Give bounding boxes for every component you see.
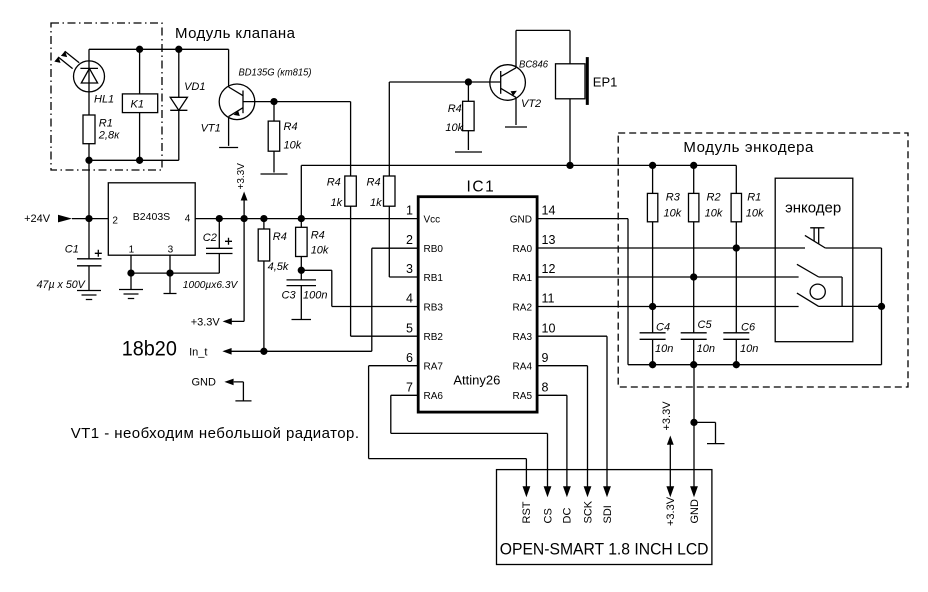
svg-text:R4: R4: [284, 121, 298, 133]
label B2403S: [112, 211, 190, 256]
svg-text:2: 2: [112, 216, 118, 227]
capacitor C5: [681, 277, 707, 365]
svg-text:In_t: In_t: [189, 346, 207, 358]
svg-text:Attiny26: Attiny26: [453, 373, 500, 388]
svg-text:IC1: IC1: [467, 179, 494, 196]
encoder module dashed box: [618, 133, 908, 387]
svg-text:R2: R2: [707, 192, 721, 204]
svg-text:RA3: RA3: [513, 332, 533, 343]
svg-text:10: 10: [542, 321, 556, 335]
relay K1: [122, 94, 157, 113]
resistor R3 10k: [652, 165, 654, 193]
svg-text:+24V: +24V: [24, 213, 51, 225]
wire pin14 GND to encoder: [537, 219, 628, 365]
svg-text:K1: K1: [131, 98, 144, 110]
svg-text:10k: 10k: [746, 208, 764, 220]
svg-text:12: 12: [542, 262, 556, 276]
svg-text:+3.3V: +3.3V: [236, 163, 247, 190]
svg-text:5: 5: [406, 321, 413, 335]
svg-text:1: 1: [406, 204, 413, 218]
svg-text:Модуль энкодера: Модуль энкодера: [683, 139, 814, 156]
svg-text:CS: CS: [542, 508, 554, 523]
wire GND LCD: [693, 365, 695, 487]
svg-text:1k: 1k: [370, 197, 382, 209]
svg-text:Vcc: Vcc: [424, 214, 441, 225]
flag GND: [234, 382, 252, 401]
svg-text:R4: R4: [273, 231, 287, 243]
node rail R3: [650, 162, 656, 168]
svg-text:VT1: VT1: [201, 122, 221, 134]
switch A symbol: [797, 264, 842, 306]
text labels: [175, 25, 841, 217]
svg-text:SDI: SDI: [602, 505, 614, 523]
svg-text:BD135G (кт815): BD135G (кт815): [239, 67, 312, 79]
resistor R1: [83, 115, 95, 144]
svg-text:1: 1: [129, 245, 135, 256]
svg-text:RB0: RB0: [424, 244, 444, 255]
wire bottom valve rail: [89, 159, 179, 161]
transistor VT2: [490, 65, 526, 101]
svg-text:R4: R4: [448, 103, 462, 115]
svg-text:2,8к: 2,8к: [98, 129, 120, 141]
pin arrow +3.3V: [666, 486, 674, 497]
pin arrow SDI: [603, 486, 611, 497]
ground bar below pin3: [164, 273, 177, 293]
LCD connector box: [497, 470, 712, 565]
svg-text:13: 13: [542, 233, 556, 247]
svg-text:18b20: 18b20: [122, 337, 177, 361]
svg-text:11: 11: [542, 292, 555, 306]
ground below C1: [77, 291, 101, 300]
push button symbol: [810, 228, 824, 244]
wire B2403S pins 1,3: [131, 255, 219, 273]
svg-text:10n: 10n: [740, 343, 758, 355]
svg-text:энкодер: энкодер: [785, 200, 841, 217]
resistor R1 10k: [731, 193, 741, 221]
svg-text:VD1: VD1: [184, 81, 205, 93]
svg-text:RB3: RB3: [424, 302, 444, 313]
svg-text:1000µx6.3V: 1000µx6.3V: [183, 279, 238, 291]
svg-text:BC846: BC846: [519, 59, 548, 71]
svg-text:RA4: RA4: [513, 362, 533, 373]
svg-text:3: 3: [168, 245, 174, 256]
wire VT2 collector to EP1: [516, 30, 570, 63]
valve module dashed box: [51, 23, 162, 170]
svg-text:R4: R4: [327, 177, 341, 189]
wire +3.3V flag up: [243, 200, 245, 219]
svg-text:C1: C1: [65, 244, 79, 256]
svg-text:VT1 - необходим небольшой ради: VT1 - необходим небольшой радиатор.: [71, 425, 359, 442]
svg-text:RST: RST: [521, 501, 533, 523]
pin arrow SCK: [584, 486, 592, 497]
encoder shaft circle: [810, 284, 825, 299]
svg-text:EP1: EP1: [593, 75, 618, 90]
wire pin8 RA5 to DC: [537, 395, 567, 486]
svg-text:10k: 10k: [311, 244, 329, 256]
LED HL1: [74, 61, 105, 92]
capacitor C1: [77, 219, 102, 291]
svg-text:RA1: RA1: [513, 273, 533, 284]
svg-text:Модуль клапана: Модуль клапана: [175, 25, 296, 42]
svg-text:10n: 10n: [655, 343, 673, 355]
wire pin12 RA1: [537, 276, 799, 278]
svg-text:+3.3V: +3.3V: [191, 317, 221, 329]
svg-text:R1: R1: [747, 192, 761, 204]
wire +3.3V flag down-left: [232, 219, 245, 322]
node +3.3V branch: [241, 216, 247, 222]
svg-text:C3: C3: [282, 290, 297, 302]
svg-text:9: 9: [542, 351, 549, 365]
wire pin13 RA0: [537, 247, 805, 249]
svg-text:10n: 10n: [697, 343, 715, 355]
svg-text:C6: C6: [741, 322, 756, 334]
svg-text:RA6: RA6: [424, 391, 444, 402]
svg-text:100n: 100n: [303, 290, 327, 302]
wire pin7 RA6 to CS: [391, 395, 548, 486]
power module B2403S: [108, 183, 195, 255]
switch B symbol: [797, 293, 882, 306]
svg-text:RA2: RA2: [513, 302, 533, 313]
svg-text:+3.3V: +3.3V: [665, 496, 677, 526]
svg-text:DC: DC: [562, 508, 574, 524]
node switch common: [879, 303, 885, 309]
ground below pin1: [119, 273, 143, 298]
node junctions valve: [137, 46, 143, 52]
svg-text:4: 4: [406, 292, 413, 306]
svg-text:R1: R1: [99, 118, 113, 130]
wire top valve rail: [89, 48, 229, 50]
IC U1 Attiny26 box: [418, 197, 537, 412]
svg-text:2: 2: [406, 233, 413, 247]
pin arrow DC: [563, 486, 571, 497]
svg-text:GND: GND: [689, 499, 701, 524]
node VT2 base junction: [465, 79, 471, 85]
wire VD1 column: [178, 49, 180, 160]
capacitor C6: [723, 248, 749, 365]
svg-text:OPEN-SMART 1.8 INCH LCD: OPEN-SMART 1.8 INCH LCD: [500, 540, 709, 558]
svg-text:6: 6: [406, 351, 413, 365]
resistor R4 10k (DS18B20 pull-up): [298, 216, 304, 222]
svg-text:RB2: RB2: [424, 332, 444, 343]
wire pin9 RA4 to SCK: [537, 366, 587, 487]
wire pin10 RA3 to SDI: [537, 336, 607, 486]
wire VT2 base: [389, 81, 500, 83]
svg-text:R4: R4: [367, 177, 381, 189]
svg-text:RA5: RA5: [513, 391, 533, 402]
svg-text:3: 3: [406, 262, 413, 276]
encoder box: [775, 178, 853, 342]
svg-text:RB1: RB1: [424, 273, 444, 284]
wire pin11 RA2: [537, 306, 799, 308]
svg-text:B2403S: B2403S: [133, 211, 170, 223]
svg-text:C5: C5: [698, 319, 713, 331]
wire Vcc rail: [195, 218, 418, 220]
diode VD1: [170, 97, 187, 110]
resistor R4 1k (to RB2): [350, 102, 352, 176]
svg-text:4,5k: 4,5k: [268, 261, 289, 273]
svg-text:10k: 10k: [705, 208, 723, 220]
svg-text:10k: 10k: [664, 208, 682, 220]
wire +3.3V top rail: [301, 165, 736, 218]
svg-text:C2: C2: [203, 232, 217, 244]
svg-text:8: 8: [542, 381, 549, 395]
wire +3.3V LCD: [669, 445, 671, 487]
svg-text:4: 4: [185, 214, 191, 225]
wire In_t to RB0: [224, 248, 418, 351]
svg-text:R4: R4: [311, 230, 325, 242]
buzzer EP1: [556, 64, 586, 99]
pin arrow RST: [523, 486, 531, 497]
svg-text:RA7: RA7: [424, 362, 444, 373]
wire base to 1k column: [274, 101, 351, 103]
svg-text:7: 7: [406, 381, 413, 395]
wire C3 node to RB3: [301, 270, 418, 306]
resistor R4 10k (VT2 base): [467, 82, 469, 101]
resistor R2 10k: [693, 165, 695, 193]
svg-text:1k: 1k: [331, 197, 343, 209]
pin arrow CS: [544, 486, 552, 497]
node VT1 base junction: [271, 99, 277, 105]
svg-text:GND: GND: [192, 376, 217, 388]
svg-text:RA0: RA0: [513, 244, 533, 255]
resistor R4 4,5k: [261, 216, 267, 222]
wire HL1/R1 column: [88, 49, 90, 218]
transistor VT1: [219, 84, 255, 120]
wire encoder ground rail: [628, 364, 882, 366]
svg-text:C4: C4: [656, 322, 670, 334]
svg-text:HL1: HL1: [94, 94, 114, 106]
capacitor C2: [216, 216, 222, 222]
resistor R4 10k (VT1 base): [273, 102, 275, 122]
wire +24V input: [72, 218, 108, 220]
svg-text:VT2: VT2: [521, 98, 541, 110]
capacitor C4: [640, 307, 666, 365]
node C1 junction: [86, 216, 92, 222]
svg-text:GND: GND: [510, 214, 532, 225]
svg-text:SCK: SCK: [582, 500, 594, 523]
pin arrow GND: [690, 486, 698, 497]
resistor R4 1k (to RB1): [388, 82, 390, 176]
capacitor C3: [287, 270, 317, 319]
node rail R2: [691, 162, 697, 168]
svg-text:10k: 10k: [284, 139, 302, 151]
svg-text:47µ x 50V: 47µ x 50V: [37, 279, 87, 291]
svg-text:10k: 10k: [445, 122, 463, 134]
svg-text:+3.3V: +3.3V: [661, 401, 673, 431]
svg-text:R3: R3: [666, 192, 681, 204]
node EP1 bottom junction: [567, 162, 573, 168]
ground symbol LCD: [694, 422, 725, 443]
svg-text:14: 14: [542, 204, 556, 218]
wire pin6 RA7 to RST: [369, 366, 527, 487]
wire K1 column: [139, 49, 141, 160]
